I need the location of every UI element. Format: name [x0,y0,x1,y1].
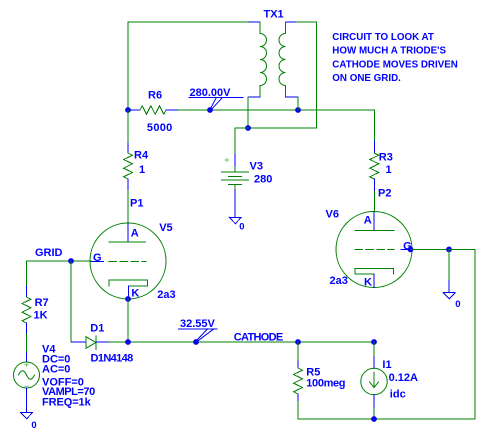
node D1/V5 junction dot [125,339,131,345]
wire: TX1 secondary bottom drop to rail [297,97,299,110]
resistor R6 left pin [128,109,140,111]
svg-text:A: A [364,214,372,226]
resistor R3 bottom pin [373,179,375,192]
triode V5 cathode hook [109,280,147,286]
svg-text:CIRCUIT TO LOOK AT: CIRCUIT TO LOOK AT [332,32,434,43]
transformer TX1 secondary top pin [286,21,297,23]
svg-text:5000: 5000 [147,122,172,134]
svg-text:2a3: 2a3 [157,289,175,301]
svg-text:0: 0 [455,299,460,310]
node R5-top junction dot [295,339,301,345]
triode V5 grid dashes [109,260,146,262]
wire: grid down to R7 [26,261,28,286]
transformer TX1 primary winding [260,22,267,97]
ground symbol 0 below V3 [229,217,241,223]
svg-text:GRID: GRID [35,247,63,259]
svg-text:0: 0 [31,420,36,431]
transformer TX1 secondary bottom pin [286,96,299,98]
wire: node B1 to V3 top [235,128,248,154]
svg-text:K: K [364,277,372,289]
wire: R4 to V5 anode, node P1 [127,191,129,224]
ground pin [448,280,450,292]
svg-text:R7: R7 [35,297,49,309]
resistor R3 body [370,153,379,179]
battery V3 bottom pin [234,190,236,217]
wire: R5 bottom corner to bottom rail [298,402,475,420]
wire: R4 top lead from node [127,110,129,143]
resistor R4 bottom pin [127,179,129,191]
battery V3 plus marker [225,158,229,162]
node secondary-bottom junction dot [295,107,301,113]
svg-text:R4: R4 [134,150,149,162]
wire: y=128 link from right drop to node B1 [248,127,317,129]
wire: TX1 secondary top to right drop [296,22,317,128]
wire: main B+ rail from R6 to R3 [179,109,375,111]
svg-text:280: 280 [254,174,272,186]
svg-text:A: A [131,227,139,239]
svg-text:CATHODE MOVES DRIVEN: CATHODE MOVES DRIVEN [332,60,458,71]
transformer TX1 primary bottom pin [248,96,260,98]
node B1 junction dot [245,125,251,131]
wire: grid net horizontal [27,260,92,262]
bias label 32.55V with underline and pointer [178,318,217,341]
current source I1 arrow [370,372,379,387]
diode D1 anode pin [72,341,86,343]
svg-text:I1: I1 [382,359,391,371]
wire: I1 bottom to rail [373,409,375,419]
triode V6 plate bar [355,229,394,231]
current source I1 top pin [373,357,375,369]
triode V6 anode pin A [373,212,375,230]
triode V6 grid pin G [401,248,412,250]
svg-text:V3: V3 [250,160,263,172]
svg-text:CATHODE: CATHODE [234,332,283,344]
resistor R7 bottom pin [26,323,28,334]
node V6 grid pin dot [408,247,414,253]
svg-text:ON ONE GRID.: ON ONE GRID. [332,73,401,84]
resistor R3 top lead wire [373,110,375,141]
svg-text:P1: P1 [130,197,143,209]
svg-text:V6: V6 [326,208,339,220]
wire: cathode node down to I1 [373,342,375,357]
svg-text:32.55V: 32.55V [180,318,216,330]
svg-text:R5: R5 [306,366,320,378]
resistor R7 body [22,297,31,323]
diode D1 cathode pin [96,341,109,343]
transformer TX1 primary top pin [249,21,260,23]
wire: GRID node down to D1 [71,261,73,342]
svg-text:2a3: 2a3 [330,275,348,287]
svg-text:R3: R3 [379,151,393,163]
svg-text:idc: idc [390,389,406,401]
sine source V4 circle [14,362,40,388]
transformer TX1 secondary winding [279,22,285,97]
triode V5 envelope circle [90,223,166,299]
wire: right node to right rail corner [449,249,475,419]
node R6-left junction dot [125,107,131,113]
current source I1 bottom pin [373,395,375,409]
svg-text:P2: P2 [378,188,391,200]
title text block [332,32,458,84]
svg-text:FREQ=1k: FREQ=1k [42,396,92,408]
svg-text:K: K [131,287,139,299]
resistor R7 top pin [26,286,28,297]
wire: V6 grid to right node [412,248,450,250]
ground symbol 0 below V4 [21,413,33,419]
node V5 cathode junction dot [125,296,131,302]
resistor R6 body [140,106,166,114]
wire: V5 cathode down to cathode rail [127,299,129,342]
resistor R4 top pin [127,143,129,153]
bias label 280.00V with underline and pointer [189,87,243,109]
svg-text:HOW MUCH A TRIODE'S: HOW MUCH A TRIODE'S [332,46,446,57]
sine source V4 minus marker [25,385,29,387]
wire: cathode rail [109,341,374,343]
sine source V4 top pin [26,353,28,363]
sine source V4 waveform [19,371,35,380]
svg-text:0.12A: 0.12A [389,372,418,384]
triode V6 grid dashes [355,248,394,250]
wire: R7 to V4 [26,334,28,353]
node grid-right junction dot [446,247,452,253]
resistor R5 bottom pin [297,394,299,402]
resistor R6 right pin [166,109,179,111]
svg-text:0: 0 [239,222,244,233]
svg-text:100meg: 100meg [306,378,345,390]
triode V5 anode pin A [127,224,129,242]
node bottom rail junction dot [371,416,377,422]
wire: left vertical from top rail down to R4 [127,22,129,143]
battery V3 top pin [234,154,236,167]
svg-text:R6: R6 [148,90,162,102]
svg-text:1: 1 [386,164,392,176]
svg-text:D1: D1 [90,322,104,334]
svg-text:AC=0: AC=0 [42,364,70,376]
diode D1 triangle [86,337,96,349]
current source I1 circle [361,368,387,394]
svg-text:1: 1 [139,164,145,176]
wire: R5 top lead [297,342,299,361]
svg-text:V5: V5 [159,222,172,234]
triode V6 cathode pin K [373,274,375,288]
diode D1 cathode bar [95,336,97,350]
ground symbol 0 right [443,293,455,299]
resistor R5 top pin [297,361,299,368]
wire: TX1 primary bottom drop to node B1 [247,97,249,128]
node V6-cathode/I1 junction dot [371,339,377,345]
triode V5 plate bar [109,241,146,243]
resistor R4 body [124,153,133,179]
sine source V4 bottom pin [26,388,28,413]
resistor R5 body [294,368,303,394]
node bias probe dot 280.00V [207,107,213,113]
triode V5 cathode pin K [127,286,129,299]
battery V3 plates [222,167,249,190]
sine source V4 plus marker [25,363,29,367]
wire: ground stub below right node [448,249,450,280]
svg-text:G: G [93,252,102,264]
wire: top rail to TX1 primary [128,21,249,23]
wire: R3 to V6 anode, node P2 [373,192,375,212]
triode V5 grid pin G [91,260,103,262]
triode V6 envelope circle [336,212,412,288]
node bias probe dot 32.55V [193,339,199,345]
resistor R3 top pin [373,141,375,153]
svg-text:D1N4148: D1N4148 [91,352,134,364]
svg-text:TX1: TX1 [264,8,284,20]
svg-text:1K: 1K [34,309,48,321]
triode V6 cathode hook [355,268,393,274]
node GRID junction dot [68,258,74,264]
